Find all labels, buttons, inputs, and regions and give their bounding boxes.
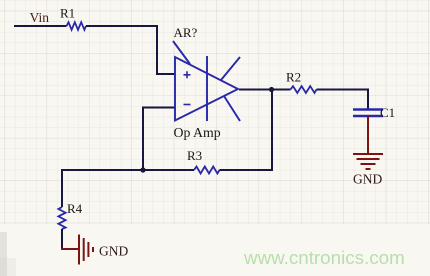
wire feedback vertical up to output [271, 90, 273, 171]
wire C1 to ground (power lead) [367, 116, 369, 153]
svg-text:R1: R1 [60, 6, 75, 21]
op-amp power rail vertical line [206, 56, 208, 121]
wire minus input vertical [142, 107, 144, 171]
op-amp plus sign [184, 71, 191, 78]
wire minus input horizontal [143, 107, 175, 109]
svg-text:GND: GND [353, 172, 382, 187]
svg-text:Vin: Vin [30, 10, 50, 25]
op-amp NE diagonal pin [221, 57, 240, 80]
op-amp SE diagonal pin [224, 96, 240, 121]
wire R1 to corner [86, 25, 158, 27]
wire output to R2 [239, 89, 291, 91]
svg-text:R2: R2 [286, 70, 301, 85]
svg-text:Op Amp: Op Amp [174, 125, 221, 140]
resistor R4 [58, 207, 65, 229]
wire to plus input [156, 73, 175, 75]
resistor R3 [194, 167, 220, 174]
svg-text:GND: GND [99, 244, 128, 259]
resistor R1 [67, 22, 87, 30]
wire feedback bottom horizontal left part [62, 169, 194, 171]
junction dot at minus branch [140, 167, 145, 172]
resistor R2 [291, 86, 317, 93]
op-amp NW diagonal pin [173, 41, 190, 64]
wire R4 to ground lead [61, 229, 63, 250]
wire down to C1 [367, 90, 369, 110]
faint smudge bottom-left [0, 232, 7, 276]
svg-text:R3: R3 [187, 148, 202, 163]
capacitor C1 [353, 110, 383, 117]
op-amp U1 triangle [175, 57, 238, 121]
wire Vin input left segment [14, 25, 67, 27]
svg-text:www.cntronics.com: www.cntronics.com [243, 247, 405, 268]
wire corner down to plus input [156, 25, 158, 74]
svg-text:C1: C1 [380, 105, 395, 120]
wire feedback bottom horizontal right part [220, 169, 274, 171]
ground symbol right (earth) [353, 154, 383, 169]
svg-text:R4: R4 [67, 201, 83, 216]
junction dot at output [269, 87, 274, 92]
op-amp minus sign [184, 104, 191, 106]
ground lead horizontal (power port) [61, 248, 78, 250]
svg-text:AR?: AR? [174, 25, 198, 40]
wire R2 to C1 corner [317, 89, 370, 91]
wire left branch down to R4 [61, 169, 63, 207]
ground symbol left (battery style bars) [79, 235, 93, 265]
